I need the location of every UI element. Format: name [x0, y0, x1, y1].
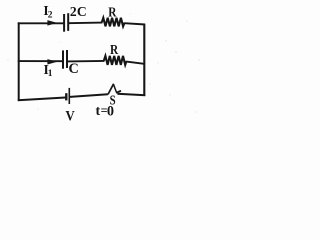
battery V short plate [65, 93, 67, 100]
wire bottom branch left segment [18, 98, 66, 101]
switch S closing motion arrow [113, 84, 121, 93]
label I2 [43, 3, 52, 20]
svg-text:V: V [66, 108, 76, 124]
resistor R middle zigzag [104, 56, 127, 65]
svg-text:R: R [108, 6, 117, 21]
battery V long plate [68, 88, 70, 104]
wire right vertical [143, 24, 145, 96]
wire top branch right segment [124, 23, 145, 24]
capacitor C right plate [66, 50, 68, 68]
capacitor 2C right plate [67, 13, 69, 31]
wire middle branch left segment [18, 60, 63, 62]
resistor R top zigzag [102, 18, 125, 27]
capacitor C left plate [62, 50, 64, 68]
label 2C [70, 4, 87, 19]
wire left vertical [18, 22, 20, 101]
current arrow I1 [47, 59, 57, 64]
wire middle branch middle segment [67, 60, 105, 63]
svg-text:2: 2 [70, 4, 77, 19]
wire top branch left segment [18, 22, 64, 24]
wire top branch middle segment [68, 22, 102, 25]
capacitor 2C left plate [63, 14, 65, 32]
switch S blade [108, 84, 114, 95]
svg-text:R: R [110, 43, 119, 58]
label I1 [44, 62, 53, 79]
svg-text:C: C [69, 61, 79, 77]
svg-text:C: C [77, 4, 87, 19]
label t = 0 [96, 103, 115, 119]
wire bottom branch right segment [117, 94, 145, 96]
svg-text:2: 2 [48, 10, 53, 20]
current arrow I2 [47, 20, 57, 26]
wire middle branch right segment [126, 62, 145, 64]
svg-text:1: 1 [48, 69, 53, 79]
wire bottom branch middle segment [70, 94, 108, 97]
svg-text:0: 0 [107, 103, 114, 119]
